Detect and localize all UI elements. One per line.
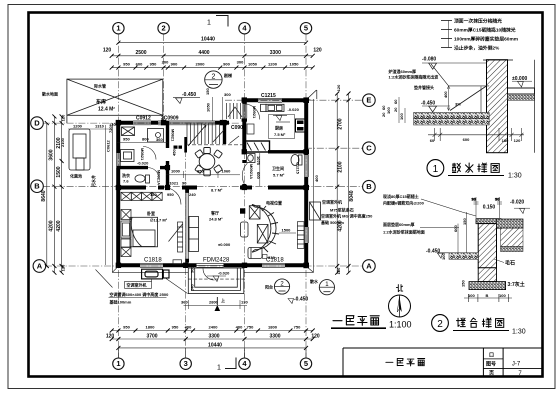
- wc room fixtures: [247, 154, 303, 166]
- section circle 2 in hall: [205, 71, 232, 88]
- svg-text:300: 300: [224, 92, 231, 97]
- svg-text:150: 150: [205, 88, 210, 95]
- svg-text:400: 400: [314, 175, 319, 182]
- right dim texts (rotated): [336, 84, 355, 274]
- svg-text:沿止步条，油外侧2%: 沿止步条，油外侧2%: [454, 45, 500, 52]
- svg-text:-0.450: -0.450: [421, 101, 435, 107]
- detail1 left edge dims: [393, 99, 404, 120]
- laundry black boxes: [174, 146, 183, 149]
- svg-text:500: 500: [190, 266, 195, 273]
- TV cabinet: [249, 206, 260, 219]
- svg-text:240: 240: [190, 284, 195, 291]
- axis circle D left: [31, 117, 44, 130]
- svg-text:剧梯: 剧梯: [224, 72, 232, 78]
- window C0912 in D wall: [133, 121, 151, 125]
- svg-text:950: 950: [150, 62, 157, 67]
- window C1215 in right wall: [305, 155, 309, 177]
- detail2 annotations top-left: [383, 193, 425, 235]
- axis circle 2 top: [158, 23, 169, 34]
- svg-text:基础100mm: 基础100mm: [109, 299, 132, 305]
- svg-text:M1021: M1021: [166, 181, 179, 186]
- svg-text:2: 2: [437, 319, 443, 330]
- svg-text:厨房: 厨房: [275, 125, 283, 131]
- axis circle 3 bottom: [180, 358, 191, 369]
- svg-text:20: 20: [393, 107, 398, 112]
- axis circle 4 bottom: [239, 358, 250, 369]
- svg-text:950: 950: [197, 168, 204, 173]
- svg-text:1800: 1800: [146, 324, 156, 329]
- svg-text:5: 5: [304, 359, 308, 368]
- svg-text:-0.450: -0.450: [426, 248, 440, 254]
- svg-text:空调室外机: 空调室外机: [127, 282, 147, 288]
- svg-text:2100: 2100: [60, 137, 65, 147]
- door arc M1021 in B wall: [164, 188, 181, 205]
- svg-text:7.5 M²: 7.5 M²: [274, 132, 286, 137]
- svg-text:1:30: 1:30: [512, 329, 526, 336]
- detail2 base 3:7: [469, 282, 506, 290]
- svg-text:450: 450: [172, 149, 177, 156]
- svg-text:1075: 1075: [256, 156, 261, 166]
- svg-text:1050: 1050: [248, 62, 258, 67]
- stair door swing diagonal: [230, 136, 240, 144]
- title block text: [386, 361, 393, 363]
- svg-text:950: 950: [172, 324, 179, 329]
- round dining table: [195, 148, 223, 176]
- svg-text:100: 100: [386, 107, 391, 114]
- svg-text:2: 2: [162, 24, 166, 33]
- detail1 -0.080 level: [422, 56, 487, 69]
- svg-text:1: 1: [116, 359, 120, 368]
- svg-text:120: 120: [61, 264, 66, 271]
- svg-text:1000: 1000: [171, 168, 181, 173]
- svg-text:1: 1: [207, 20, 211, 27]
- svg-text:1: 1: [116, 24, 120, 33]
- svg-text:5: 5: [304, 24, 308, 33]
- porch steps nested: [188, 268, 244, 294]
- svg-text:300: 300: [237, 60, 244, 65]
- svg-text:C1215: C1215: [261, 93, 276, 99]
- section circles bottom right of plan: [274, 279, 334, 295]
- porch bottom dims: [184, 305, 248, 307]
- svg-text:0.150: 0.150: [483, 205, 496, 211]
- svg-text:C0909: C0909: [231, 125, 246, 131]
- svg-text:240: 240: [189, 192, 196, 197]
- AC boxed label: [125, 282, 152, 289]
- svg-text:950: 950: [123, 324, 130, 329]
- 838 box label: [263, 255, 268, 259]
- door FDM2428 in A wall: [197, 263, 224, 267]
- kitchen lower cab: [247, 124, 254, 134]
- svg-text:1500: 1500: [282, 228, 292, 233]
- detail1 -0.450 level: [421, 101, 450, 113]
- living room cabinet stack at axis3: [189, 217, 199, 252]
- detail1 title text: [452, 163, 460, 172]
- svg-text:120: 120: [336, 84, 341, 91]
- partition wall axis3 bedroom/living: [186, 191, 188, 262]
- svg-text:空调室外机 MG 调中高度250: 空调室外机 MG 调中高度250: [321, 213, 373, 219]
- svg-text:100: 100: [441, 253, 446, 260]
- wall stub axis3 at stair: [184, 137, 187, 153]
- kitchen west wall (axis 4): [242, 98, 246, 189]
- top dim ticks row1: [110, 41, 315, 70]
- svg-text:1310: 1310: [95, 124, 105, 129]
- svg-text:3300: 3300: [270, 50, 281, 56]
- svg-text:2700: 2700: [338, 118, 344, 129]
- svg-text:B: B: [486, 293, 489, 298]
- AC unit box outside A wall: [142, 269, 169, 279]
- svg-text:口: 口: [489, 353, 494, 359]
- svg-text:90: 90: [182, 181, 187, 186]
- top dim texts row3: [123, 60, 299, 67]
- right exterior wall (axis 5): [304, 98, 308, 267]
- svg-text:8640: 8640: [41, 190, 47, 201]
- single sofa chairs: [241, 222, 263, 259]
- wall shelf right: [297, 222, 304, 249]
- septic tank outside left wall: [69, 129, 90, 170]
- plan title: [333, 320, 342, 322]
- svg-text:900: 900: [223, 62, 230, 67]
- detail2 -0.020 level: [510, 200, 530, 214]
- porch section arrow: [215, 305, 221, 311]
- stair upper flight treads: [227, 103, 245, 119]
- detail1 leader diagonal: [431, 64, 449, 86]
- svg-text:30: 30: [472, 197, 477, 202]
- svg-text:卫生间: 卫生间: [272, 165, 284, 171]
- svg-text:60: 60: [393, 99, 398, 104]
- curved sofa: [252, 205, 279, 253]
- sofa X table: [257, 224, 268, 243]
- wardrobe X boxes bedroom: [121, 192, 162, 200]
- svg-text:1050: 1050: [290, 62, 300, 67]
- svg-text:1060: 1060: [222, 168, 232, 173]
- svg-text:现浇80厚C15砺随土: 现浇80厚C15砺随土: [383, 193, 419, 199]
- svg-text:4200: 4200: [49, 220, 55, 231]
- svg-text:1: 1: [217, 365, 221, 372]
- svg-text:2: 2: [211, 73, 215, 80]
- detail2 footing: [478, 268, 496, 282]
- svg-text:炉渣混60mm厚: 炉渣混60mm厚: [389, 68, 417, 74]
- E axis wall: [242, 98, 309, 102]
- detail1 bottom dims: [428, 128, 524, 141]
- left dimension lines: [47, 116, 62, 272]
- right dim ticks: [335, 92, 350, 275]
- axis grid lines: [43, 34, 363, 358]
- left exterior wall (axis 1): [116, 121, 120, 266]
- detail1 floor slab right: [508, 60, 535, 153]
- svg-text:-0.450: -0.450: [182, 92, 196, 98]
- level -0.450 in hall: [173, 92, 200, 103]
- svg-text:950: 950: [123, 62, 130, 67]
- svg-text:A: A: [37, 262, 43, 271]
- top dim texts row2: [103, 48, 322, 56]
- title block strip: [343, 348, 543, 376]
- interior wall x166 hall: [166, 121, 169, 189]
- AC unit box outside right wall: [310, 202, 321, 220]
- bedroom bottom sill box: [173, 260, 182, 264]
- interior wall bath south y167.5: [117, 166, 169, 169]
- svg-text:±0.000: ±0.000: [512, 76, 527, 82]
- svg-text:600: 600: [136, 62, 143, 67]
- kitchen level symbol: [273, 116, 290, 123]
- svg-text:C: C: [366, 144, 372, 153]
- door M0821 arc: [143, 147, 156, 160]
- detail1 title circle: [427, 160, 444, 177]
- left dim texts (rotated): [41, 114, 66, 271]
- svg-text:顶面一次抹压分格随光: 顶面一次抹压分格随光: [454, 18, 502, 25]
- svg-text:10440: 10440: [201, 37, 215, 43]
- window in right wall lower: [305, 227, 309, 243]
- svg-text:电视位置: 电视位置: [266, 200, 282, 206]
- svg-text:360: 360: [181, 300, 188, 305]
- svg-text:120: 120: [336, 267, 341, 274]
- svg-text:10440: 10440: [208, 342, 222, 348]
- svg-text:-0.020: -0.020: [510, 200, 524, 206]
- svg-text:散水: 散水: [310, 278, 319, 284]
- svg-text:130: 130: [241, 300, 248, 305]
- svg-text:100: 100: [499, 293, 506, 298]
- up arrow in stair hall: [228, 107, 242, 117]
- svg-text:面层垫层60mm厚: 面层垫层60mm厚: [383, 221, 415, 227]
- svg-text:M0821: M0821: [140, 148, 145, 161]
- kitchen floor outline: [269, 115, 295, 139]
- svg-text:5.7 M²: 5.7 M²: [273, 173, 285, 178]
- svg-text:7.6: 7.6: [123, 179, 129, 184]
- svg-text:900: 900: [171, 62, 178, 67]
- svg-text:3: 3: [184, 359, 188, 368]
- bedroom right shelf strip: [169, 222, 183, 252]
- small dims in bath: [117, 141, 168, 143]
- axis circle labels: [34, 24, 372, 369]
- detail1 annotation texts: [454, 18, 518, 52]
- svg-text:3300: 3300: [269, 333, 280, 339]
- bedroom left furniture strip: [121, 210, 131, 257]
- detail1 apron slope: [449, 86, 490, 113]
- svg-text:2000: 2000: [196, 62, 206, 67]
- svg-text:FDM2428: FDM2428: [203, 258, 230, 264]
- svg-text:1:30: 1:30: [508, 173, 522, 180]
- svg-text:3600: 3600: [49, 149, 55, 160]
- axis circle 1 top: [31, 23, 376, 370]
- stair lower flight treads: [187, 124, 219, 145]
- detail2 -0.450 level left: [426, 248, 478, 258]
- stair hall east wall (axis 3 upper): [223, 121, 226, 144]
- svg-text:散水地面: 散水地面: [42, 91, 58, 97]
- window C0612 in left wall: [117, 153, 121, 168]
- apron offset lines: [112, 99, 313, 272]
- svg-text:∅13.7 M²: ∅13.7 M²: [150, 218, 168, 223]
- north compass: [389, 285, 411, 317]
- svg-text:1200: 1200: [268, 62, 278, 67]
- svg-text:2100: 2100: [338, 161, 344, 172]
- svg-text:-0.080: -0.080: [422, 56, 436, 62]
- svg-text:上: 上: [221, 297, 225, 303]
- D axis wall: [116, 121, 229, 125]
- svg-text:客厅: 客厅: [210, 210, 219, 216]
- detail1 level +-0.000 right: [512, 76, 532, 87]
- detail1 wall column hatched: [483, 60, 513, 153]
- svg-text:838: 838: [268, 255, 275, 260]
- svg-text:际水管: 际水管: [94, 83, 106, 89]
- svg-text:600: 600: [453, 225, 458, 232]
- detail2 right slab layered: [497, 219, 524, 252]
- svg-text:A: A: [366, 262, 372, 271]
- porch door arc: [203, 269, 215, 281]
- svg-text:3700: 3700: [146, 333, 157, 339]
- svg-text:950: 950: [123, 137, 130, 142]
- svg-text:空调置调600×400 调中高度 2500: 空调置调600×400 调中高度 2500: [110, 291, 170, 297]
- svg-text:1: 1: [433, 164, 439, 175]
- svg-text:60: 60: [430, 138, 435, 143]
- svg-text:C1818: C1818: [144, 258, 162, 264]
- svg-text:4400: 4400: [198, 50, 209, 56]
- svg-text:污水井: 污水井: [90, 175, 96, 187]
- leader diagonals SW: [96, 270, 188, 294]
- svg-text:8040: 8040: [349, 190, 355, 201]
- A axis wall: [116, 263, 308, 267]
- svg-text:180: 180: [502, 138, 509, 143]
- svg-text:1:2水泥砂浆抹随捣随光出波: 1:2水泥砂浆抹随捣随光出波: [389, 74, 440, 80]
- axis circle 5 top: [300, 23, 311, 34]
- svg-text:100: 100: [468, 293, 475, 298]
- axis circle A right: [363, 260, 376, 273]
- C axis wall: [268, 150, 306, 153]
- svg-text:3%: 3%: [455, 102, 461, 107]
- svg-text:600: 600: [463, 137, 470, 142]
- window C1215 in E wall: [258, 98, 282, 102]
- detail2 title text: [456, 318, 465, 327]
- detail2 leader lines: [420, 199, 476, 228]
- axis circle B left: [31, 180, 44, 193]
- kitchen counters: [261, 104, 285, 111]
- axis circle C right: [363, 142, 376, 155]
- svg-text:3:7灰土: 3:7灰土: [508, 281, 525, 288]
- columns (black): [116, 97, 309, 268]
- TV at west wall: [240, 208, 245, 213]
- svg-text:120: 120: [106, 333, 115, 339]
- detail1 annotation leaders top: [441, 21, 452, 48]
- top dimension lines: [112, 43, 313, 68]
- west side drain line: [104, 125, 106, 265]
- svg-text:120: 120: [313, 48, 322, 54]
- svg-text:C0612: C0612: [106, 139, 111, 152]
- svg-text:2500: 2500: [135, 50, 146, 56]
- axis circle A left: [33, 260, 46, 273]
- svg-text:M0921A: M0921A: [249, 164, 254, 179]
- svg-text:化粪池: 化粪池: [70, 173, 82, 179]
- svg-text:毛石: 毛石: [505, 260, 515, 267]
- axis circle 4 top: [239, 23, 250, 34]
- svg-text:-0.020: -0.020: [288, 107, 300, 112]
- svg-text:4200: 4200: [56, 220, 62, 231]
- detail2 vertical dims: [458, 212, 467, 253]
- svg-text:1200: 1200: [73, 124, 83, 129]
- svg-text:卧室: 卧室: [147, 210, 155, 216]
- svg-text:100mm厚碎砖塵实垫层60mm: 100mm厚碎砖塵实垫层60mm: [454, 36, 518, 43]
- detail2 cap speckled: [476, 219, 501, 224]
- svg-text:200: 200: [162, 60, 169, 65]
- svg-text:30: 30: [495, 197, 500, 202]
- detail2 title circle: [432, 315, 449, 332]
- svg-text:B: B: [34, 182, 40, 191]
- B axis wall: [116, 186, 308, 190]
- bottom dimension lines: [112, 331, 313, 359]
- right dimension lines: [337, 94, 348, 273]
- svg-text:1800: 1800: [268, 324, 278, 329]
- svg-text:600: 600: [256, 172, 261, 179]
- svg-text:150: 150: [462, 218, 467, 225]
- detail2 wall column hatch: [478, 224, 496, 268]
- svg-text:3300: 3300: [208, 333, 219, 339]
- svg-text:图号: 图号: [486, 361, 496, 368]
- svg-text:400: 400: [185, 324, 192, 329]
- axis circle 1 bottom: [113, 358, 124, 369]
- svg-text:-0.020: -0.020: [137, 161, 149, 166]
- svg-text:车库: 车库: [96, 99, 106, 106]
- svg-text:J-7: J-7: [512, 362, 521, 368]
- svg-text:1:2水泥砂浆抹面砺地面: 1:2水泥砂浆抹面砺地面: [383, 229, 425, 235]
- svg-text:1:100: 1:100: [389, 320, 412, 330]
- svg-text:M75浆砊条石: M75浆砊条石: [330, 207, 354, 213]
- svg-text:360: 360: [156, 137, 163, 142]
- detail1 ground hatch band: [414, 113, 490, 126]
- svg-text:B: B: [366, 182, 372, 191]
- left dim ticks: [45, 114, 64, 274]
- window C0909 in axis4 wall: [243, 103, 247, 118]
- fridge: [296, 119, 306, 132]
- svg-text:12.4 M²: 12.4 M²: [98, 107, 115, 113]
- svg-text:24.8 M²: 24.8 M²: [209, 217, 223, 222]
- svg-text:950: 950: [167, 192, 174, 197]
- window C1818 left in A wall: [140, 263, 163, 267]
- svg-text:空调室外机: 空调室外机: [322, 199, 342, 205]
- svg-text:750: 750: [294, 324, 301, 329]
- bottom dim texts mid row: [106, 333, 320, 339]
- axis circle 5 bottom: [300, 358, 311, 369]
- svg-text:120: 120: [514, 138, 521, 143]
- svg-text:C0912: C0912: [136, 116, 151, 122]
- detail1 left annotations: [389, 68, 440, 90]
- level -0.450 porch right: [288, 297, 308, 304]
- stair landing dashed: [186, 144, 244, 146]
- svg-text:阳台: 阳台: [265, 284, 273, 290]
- bottom dim texts fine row: [123, 324, 301, 329]
- svg-text:D: D: [34, 119, 40, 128]
- svg-text:M0821: M0821: [171, 129, 176, 142]
- window C1818 right in A wall: [262, 263, 285, 267]
- stair break line + arrow: [188, 125, 224, 147]
- svg-text:-0.020: -0.020: [218, 270, 230, 275]
- section mark 1 bottom: [217, 358, 236, 372]
- detail2 bottom dims: [464, 294, 512, 302]
- svg-text:400: 400: [236, 324, 243, 329]
- svg-text:洗衣: 洗衣: [122, 172, 130, 178]
- svg-text:120: 120: [61, 114, 66, 121]
- svg-text:800: 800: [142, 137, 149, 142]
- svg-text:1050: 1050: [206, 102, 211, 112]
- svg-text:2400: 2400: [209, 324, 219, 329]
- svg-text:120: 120: [311, 333, 320, 339]
- bathroom fixtures: [121, 127, 164, 183]
- svg-text:基础 500mm: 基础 500mm: [320, 219, 344, 225]
- svg-text:8.7 M²: 8.7 M²: [211, 188, 223, 193]
- svg-text:120: 120: [109, 122, 116, 127]
- bed: [130, 217, 158, 247]
- svg-text:750: 750: [247, 324, 254, 329]
- window 2C0909 in D wall: [158, 121, 215, 125]
- svg-text:±0.000: ±0.000: [218, 242, 231, 247]
- svg-text:E: E: [366, 96, 371, 105]
- flue shaft kitchen/bath: [245, 141, 270, 152]
